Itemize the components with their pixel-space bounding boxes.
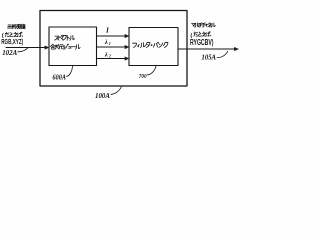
- outer box 100A: [40, 11, 187, 87]
- svg-text:2: 2: [108, 53, 111, 58]
- text tatoeba right: [194, 32, 198, 36]
- arrow lambda2: [97, 58, 126, 60]
- svg-text:(: (: [2, 33, 4, 39]
- leader 102A: [18, 48, 28, 52]
- svg-text:700: 700: [139, 73, 147, 80]
- text sanshigekichi (tristimulus): [8, 25, 12, 28]
- arrow lambda1: [97, 46, 126, 48]
- leader 105A: [217, 51, 228, 57]
- box: spectral synthesis module 600A: [49, 27, 97, 66]
- text RYGCBV): [190, 37, 214, 47]
- svg-text:RYGCBV): RYGCBV): [190, 37, 214, 47]
- text spectral: [55, 36, 59, 40]
- text gousei module: [50, 44, 55, 49]
- svg-text:102A: 102A: [2, 49, 17, 57]
- svg-text:RGB,XYZ): RGB,XYZ): [1, 39, 23, 46]
- svg-text:(: (: [190, 33, 192, 39]
- text filter bank: [132, 43, 136, 47]
- svg-text:λ: λ: [104, 39, 108, 46]
- arrow I: [97, 35, 126, 37]
- leader 100A: [111, 87, 122, 95]
- output arrow 105A: [178, 48, 235, 50]
- text multichannel: [192, 23, 196, 26]
- text tatoeba left: [5, 32, 9, 36]
- svg-text:600A: 600A: [53, 73, 67, 81]
- svg-text:1: 1: [109, 41, 111, 46]
- svg-text:105A: 105A: [202, 53, 217, 61]
- text RGB,XYZ): [1, 39, 23, 46]
- input arrow 102A: [6, 47, 45, 49]
- leader 600A: [67, 66, 73, 76]
- box: filter bank 700: [129, 28, 178, 66]
- svg-text:λ: λ: [104, 51, 108, 58]
- svg-text:100A: 100A: [95, 92, 110, 100]
- leader 700: [147, 66, 156, 75]
